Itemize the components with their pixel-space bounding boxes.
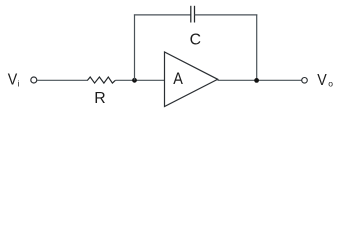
input terminal (open circle) (31, 77, 37, 83)
svg-text:V: V (8, 71, 17, 89)
node Vi label (8, 71, 20, 89)
svg-text:R: R (94, 90, 105, 107)
wire resistor to amplifier input (115, 79, 164, 81)
wire feedback top-left to capacitor (134, 14, 191, 16)
svg-text:A: A (173, 70, 183, 88)
junction node (amplifier input) (132, 78, 137, 83)
svg-text:C: C (190, 32, 201, 49)
wire amplifier output to output terminal (218, 79, 302, 81)
wire feedback left vertical (134, 14, 136, 80)
wire capacitor to top-right corner (195, 14, 258, 16)
node Vo label (317, 71, 333, 89)
capacitor C (191, 6, 195, 23)
wire input terminal to resistor (37, 79, 88, 81)
op-amp A (amplifier triangle) (165, 52, 218, 107)
wire feedback right vertical (256, 14, 258, 80)
svg-text:i: i (18, 78, 20, 88)
output terminal (open circle) (302, 78, 308, 84)
resistor R (88, 77, 116, 83)
junction node (output) (254, 78, 259, 83)
svg-text:V: V (317, 71, 326, 89)
svg-text:o: o (328, 79, 333, 89)
